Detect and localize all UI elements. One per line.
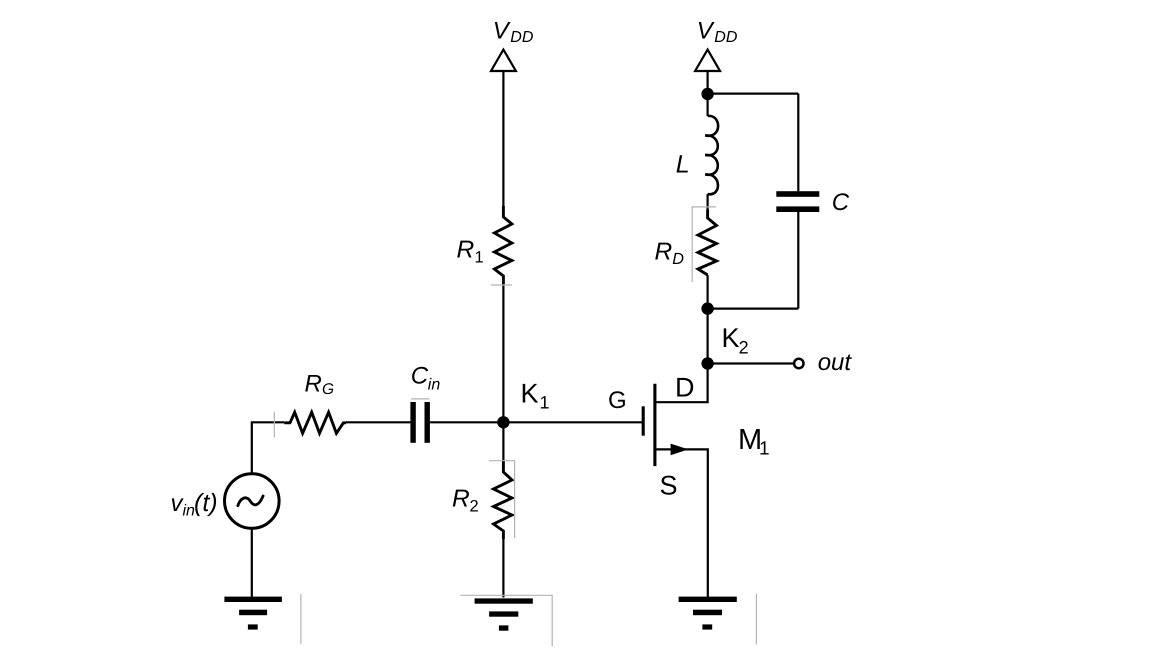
sine symbol (238, 496, 263, 506)
wire R2 to ground (502, 539, 504, 598)
svg-text:1: 1 (759, 438, 770, 459)
label K1 (521, 378, 550, 412)
svg-text:K: K (722, 323, 740, 353)
svg-text:2: 2 (470, 498, 479, 516)
svg-text:D: D (672, 250, 684, 268)
resistor R2 (494, 461, 513, 539)
svg-text:G: G (322, 381, 334, 398)
label R2 (452, 486, 479, 516)
wire drain (656, 364, 707, 403)
label RG (305, 370, 335, 398)
artifact tick above Cin (411, 398, 430, 400)
svg-text:1: 1 (540, 392, 550, 412)
artifact frame at R2 (489, 461, 515, 538)
power symbol VDD1 triangle (491, 50, 516, 71)
wire source to ground (251, 528, 253, 596)
inductor L (705, 116, 718, 194)
transistor M1 channel bar (653, 384, 656, 466)
label RD (655, 239, 685, 268)
svg-text:C: C (832, 189, 850, 216)
power symbol VDD2 triangle (695, 50, 720, 71)
wire bottom node to C branch (708, 308, 799, 310)
node out junction (701, 357, 713, 369)
wire K2 to out node (706, 309, 708, 364)
svg-text:V: V (697, 17, 715, 44)
wire C branch top (797, 94, 799, 192)
artifact tick right of ground 1 (300, 594, 302, 644)
artifact frame at RD (692, 207, 716, 282)
wire Cin to gate (through K1) (430, 421, 644, 423)
transistor M1 gate bar (642, 406, 645, 435)
wire R1 to node K1 (502, 284, 504, 422)
node K1 (497, 416, 509, 428)
svg-text:R: R (655, 239, 673, 266)
svg-text:1: 1 (475, 249, 484, 267)
resistor RD (698, 210, 717, 276)
wire top node to L (706, 94, 708, 116)
resistor R1 (494, 206, 512, 284)
svg-text:(t): (t) (194, 489, 218, 517)
ground (under M1 source) (679, 597, 737, 630)
label M1 (738, 424, 770, 459)
svg-text:K: K (521, 378, 539, 408)
ground (under vin source) (224, 597, 282, 630)
label vin(t) (171, 489, 218, 520)
svg-text:2: 2 (739, 338, 749, 358)
voltage source vin(t) (225, 474, 280, 529)
svg-text:out: out (818, 349, 853, 376)
svg-text:R: R (305, 370, 322, 397)
svg-text:V: V (493, 17, 511, 44)
label Cin (411, 363, 441, 394)
artifact tick right of ground 3 (755, 594, 757, 645)
svg-text:S: S (660, 470, 678, 500)
label R1 (457, 237, 484, 267)
svg-text:G: G (608, 387, 627, 414)
artifact frame at ground 2 (460, 595, 552, 646)
transistor M1 source arrow (671, 444, 689, 456)
wire L to RD (706, 194, 708, 210)
artifact tick below R1 (491, 284, 512, 286)
wire out (708, 362, 794, 364)
capacitor Cin (410, 402, 430, 443)
svg-text:L: L (676, 150, 690, 178)
svg-text:C: C (411, 363, 429, 390)
resistor RG (284, 412, 346, 433)
wire RG to Cin (346, 421, 410, 423)
node K2 junction (701, 302, 713, 314)
label K2 (722, 323, 749, 357)
terminal out (open circle) (794, 359, 803, 368)
svg-text:R: R (457, 237, 475, 264)
label VDD (right supply) (697, 17, 738, 46)
node top (L,C junction) (701, 88, 713, 100)
ground (under R2) (475, 598, 533, 630)
transistor M1 source lead (656, 449, 708, 596)
svg-text:R: R (452, 486, 470, 513)
wire VDD1 to R1 (502, 71, 504, 206)
svg-text:DD: DD (510, 29, 534, 46)
capacitor C (776, 191, 819, 212)
svg-text:in: in (428, 376, 441, 393)
wire source to RG corner (252, 422, 284, 474)
wire C branch bottom (797, 212, 799, 309)
wire VDD2 to top node (706, 71, 708, 94)
svg-text:D: D (675, 372, 695, 402)
wire RD to node K2 (706, 275, 708, 309)
label VDD (left supply) (493, 17, 534, 46)
svg-text:DD: DD (714, 29, 738, 46)
artifact tick left of RG (273, 412, 275, 438)
wire top node to C branch (708, 92, 799, 94)
wire K1 to R2 (502, 422, 504, 461)
